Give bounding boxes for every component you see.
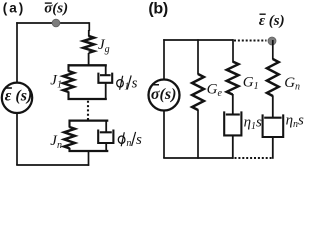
svg-text:ε (s): ε (s) bbox=[259, 13, 285, 29]
Kelvin unit 2 top bar bbox=[69, 119, 109, 121]
svg-text:n: n bbox=[126, 138, 131, 149]
svg-text:Gn: Gn bbox=[284, 75, 300, 93]
dashpot etan*s bbox=[272, 96, 274, 118]
wire Ge branch lower bbox=[197, 110, 199, 159]
dotted wire bottom (b) bbox=[235, 157, 273, 159]
wire left vertical lower (b) bbox=[163, 110, 165, 158]
dotted continuation wire (a) bbox=[87, 101, 89, 120]
spring Ge equilibrium modulus bbox=[192, 74, 204, 110]
wire top horizontal (b) bbox=[163, 39, 233, 41]
svg-text:s: s bbox=[132, 76, 138, 92]
node terminal dot (a) bbox=[52, 19, 60, 27]
svg-text:Jg: Jg bbox=[98, 37, 110, 55]
node label sigma-bar(s) top of panel a bbox=[44, 0, 68, 16]
label phin/s bbox=[118, 132, 142, 149]
svg-text:J1: J1 bbox=[50, 73, 62, 91]
dashpot phi1/s bbox=[105, 65, 107, 76]
wire Gn branch upper bbox=[272, 40, 274, 60]
svg-text:η1s: η1s bbox=[244, 114, 262, 132]
dotted wire top (b) bbox=[234, 40, 267, 42]
wire top horizontal (a) bbox=[16, 22, 89, 24]
wire G1 branch upper bbox=[232, 39, 234, 62]
label phi1/s bbox=[117, 75, 138, 92]
Kelvin unit 1 top bar bbox=[68, 64, 107, 66]
wire Ge branch upper bbox=[197, 39, 199, 74]
svg-text:s: s bbox=[136, 132, 142, 148]
wire Kelvin 2 left lower stub bbox=[68, 148, 70, 152]
spring G1 bbox=[227, 62, 239, 95]
source E2 stress source sigma-bar(s) bbox=[149, 80, 180, 111]
dashpot eta1*s bbox=[232, 94, 234, 115]
wire Kelvin 1 left stub bbox=[67, 64, 69, 71]
node terminal dot (b) bbox=[268, 37, 276, 45]
svg-text:(b): (b) bbox=[148, 0, 168, 17]
spring Jg glassy compliance bbox=[83, 36, 94, 53]
spring Jn bbox=[64, 127, 75, 148]
svg-text:σ(s): σ(s) bbox=[151, 86, 177, 103]
spring Gn bbox=[267, 59, 279, 96]
svg-text:G1: G1 bbox=[243, 75, 259, 93]
node label epsilon-bar(s) top of panel b bbox=[259, 13, 285, 29]
svg-text:Ge: Ge bbox=[207, 81, 223, 99]
wire bottom horizontal (b) bbox=[163, 157, 233, 159]
Kelvin unit 1 bottom bar bbox=[68, 98, 107, 100]
Kelvin unit 2 bottom bar bbox=[69, 150, 109, 152]
wire bottom horizontal (a) bbox=[16, 164, 89, 166]
svg-text:(a): (a) bbox=[3, 0, 26, 15]
svg-text:ηns: ηns bbox=[286, 112, 304, 130]
svg-text:ε (s): ε (s) bbox=[5, 88, 32, 105]
wire top right drop to Jg bbox=[88, 22, 90, 31]
spring J1 bbox=[63, 71, 74, 92]
source E1 strain source epsilon-bar(s) bbox=[2, 83, 32, 113]
wire bottom right riser (a) bbox=[88, 151, 90, 166]
wire Kelvin 1 left lower stub bbox=[67, 92, 69, 101]
wire Jg to Kelvin unit 1 bbox=[88, 53, 90, 66]
svg-text:Jn: Jn bbox=[50, 133, 62, 151]
wire Kelvin 2 left stub bbox=[68, 120, 70, 128]
wire left vertical upper (b) bbox=[163, 39, 165, 80]
wire left vertical upper (a) bbox=[16, 22, 18, 83]
wire left vertical lower (a) bbox=[16, 112, 18, 165]
dashpot phin/s bbox=[105, 120, 107, 133]
